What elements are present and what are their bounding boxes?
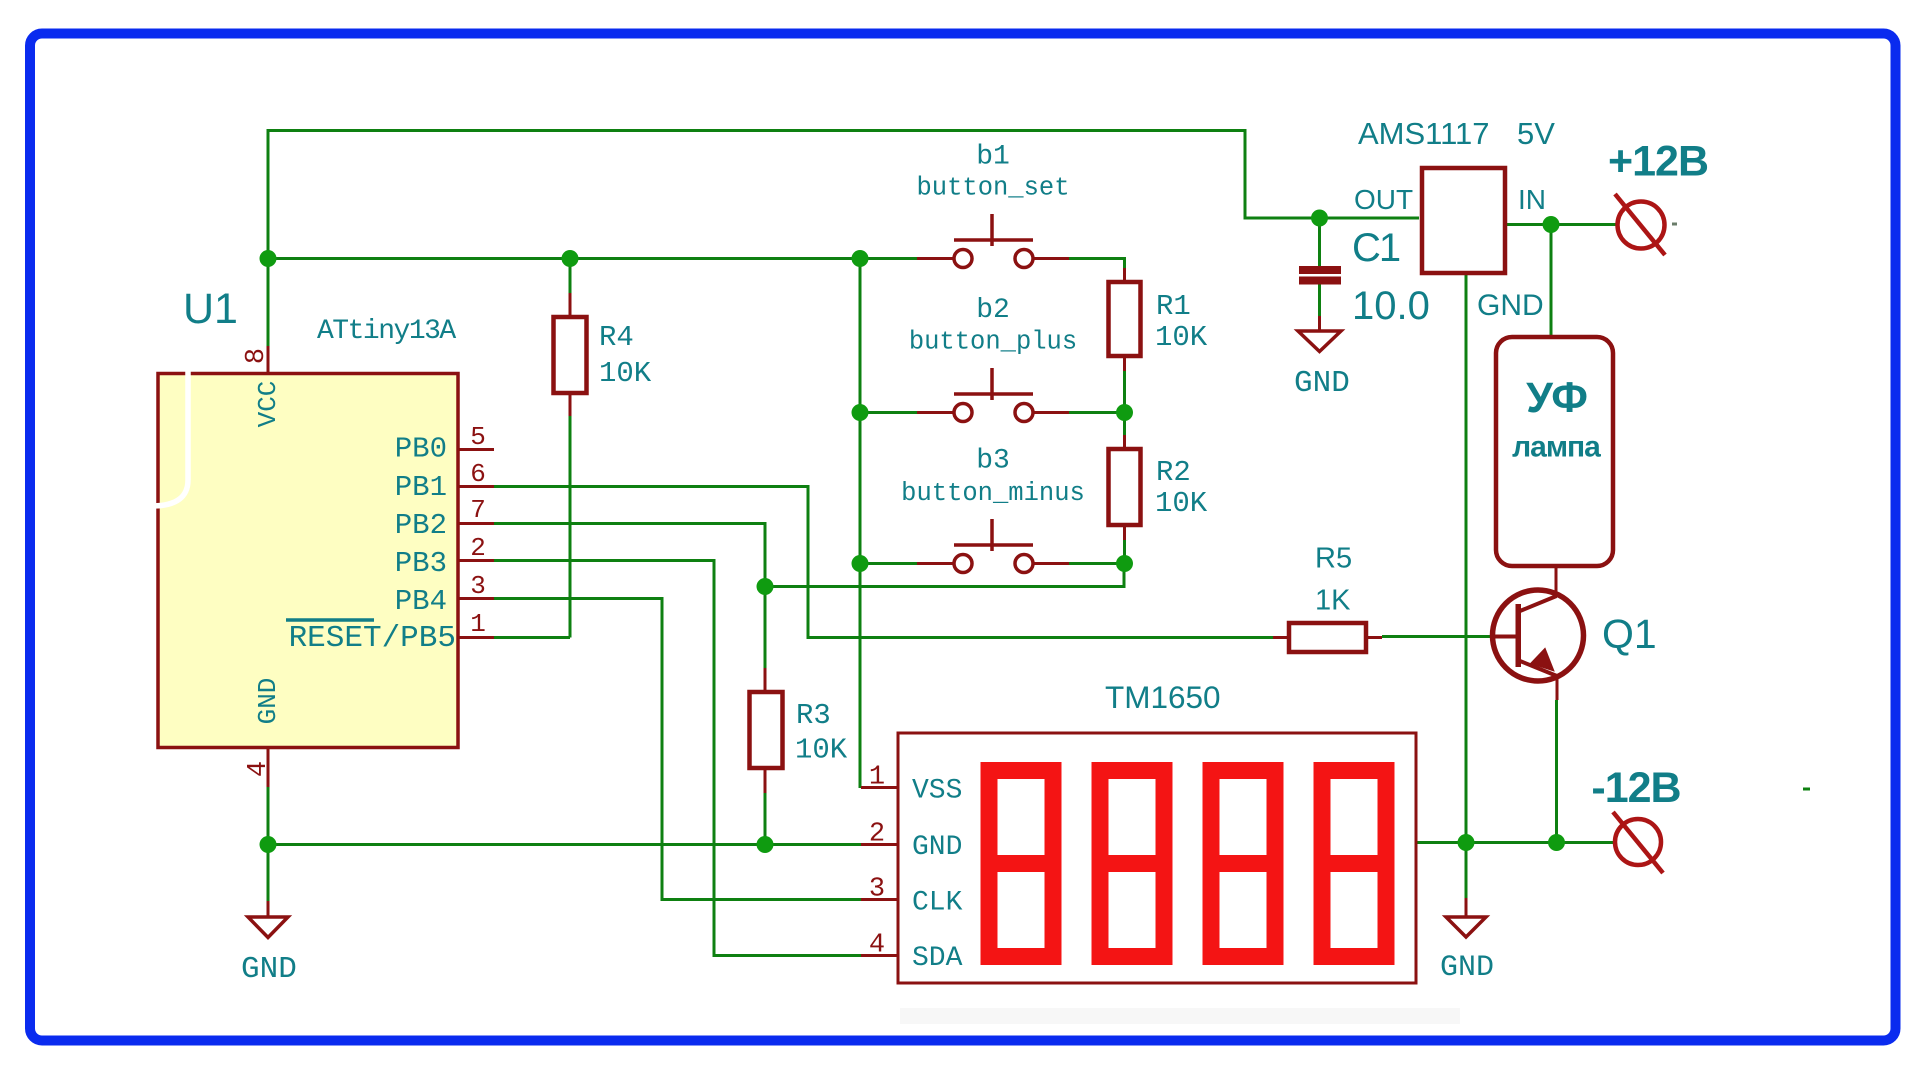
wire stub right of -12B	[1803, 788, 1810, 791]
ground symbol under C1	[1298, 331, 1341, 352]
svg-text:R4: R4	[599, 321, 634, 354]
R4 pin stubs	[569, 293, 572, 416]
ground symbol near -12B	[1446, 917, 1486, 937]
wire display GND right	[1416, 841, 1616, 844]
svg-text:VSS: VSS	[912, 776, 962, 807]
-12B GND lead	[1465, 898, 1468, 918]
Q1 emitter lead	[1556, 675, 1559, 700]
svg-text:PB0: PB0	[395, 433, 447, 466]
svg-text:PB4: PB4	[395, 585, 447, 618]
wire VCC to buttons rail	[859, 259, 862, 789]
svg-text:6: 6	[470, 459, 486, 489]
capacitor C1 plates	[1299, 266, 1341, 285]
svg-text:4: 4	[869, 931, 885, 961]
C1 bottom lead	[1318, 316, 1321, 331]
svg-text:5: 5	[470, 422, 486, 452]
regulator AMS1117 box	[1422, 168, 1505, 273]
port +12B	[1615, 194, 1665, 255]
wire R4 top	[569, 259, 572, 294]
wire PB2	[494, 524, 765, 669]
wire AMS1117 GND down	[1465, 274, 1468, 898]
pin 8 VCC stub	[267, 346, 270, 374]
R2 pin stubs	[1123, 435, 1126, 540]
b3 pin stubs	[917, 562, 1069, 565]
svg-text:Q1: Q1	[1602, 611, 1657, 657]
svg-text:7: 7	[470, 495, 486, 525]
button b1	[954, 214, 1033, 268]
svg-text:10K: 10K	[795, 734, 848, 767]
wire VCC rail	[268, 257, 917, 260]
wire VCC top bus	[268, 131, 1419, 347]
svg-text:10K: 10K	[1155, 487, 1208, 520]
svg-text:GND: GND	[1294, 366, 1350, 401]
svg-text:3: 3	[470, 571, 486, 601]
wire b1 right to R1	[1069, 259, 1125, 269]
resistor R2	[1109, 449, 1141, 525]
svg-text:SDA: SDA	[912, 943, 963, 974]
svg-text:GND: GND	[1440, 951, 1494, 985]
svg-text:b3: b3	[976, 446, 1010, 477]
wire C1 below	[1318, 281, 1321, 316]
svg-text:1K: 1K	[1315, 585, 1351, 617]
svg-text:OUT: OUT	[1354, 184, 1413, 215]
wire R3 bottom	[764, 793, 767, 845]
svg-text:button_plus: button_plus	[909, 328, 1077, 357]
svg-text:5V: 5V	[1517, 116, 1555, 151]
svg-text:10.0: 10.0	[1352, 284, 1430, 328]
wire b3 right	[1069, 562, 1125, 565]
wire R5 to Q1 base	[1382, 635, 1491, 638]
svg-text:VCC: VCC	[253, 381, 283, 428]
lamp to Q1 collector lead	[1555, 566, 1558, 597]
svg-text:УФ: УФ	[1526, 374, 1588, 422]
resistor R4	[554, 317, 587, 393]
svg-text:PB2: PB2	[395, 509, 447, 542]
svg-text:CLK: CLK	[912, 888, 963, 919]
wire C1 top	[1318, 218, 1321, 266]
svg-text:IN: IN	[1518, 184, 1546, 215]
svg-text:+12B: +12B	[1608, 138, 1708, 186]
svg-text:PB1: PB1	[395, 471, 447, 504]
wire PB4 to CLK	[494, 599, 861, 900]
svg-text:ATtiny13A: ATtiny13A	[317, 316, 456, 347]
tick right of +12B	[1672, 223, 1677, 226]
pin 5 stub	[457, 448, 494, 451]
faint band under display	[900, 1008, 1460, 1024]
svg-text:PB3: PB3	[395, 547, 447, 580]
display digits	[989, 771, 1386, 957]
svg-text:U1: U1	[183, 285, 238, 333]
svg-text:RESET/PB5: RESET/PB5	[289, 621, 456, 656]
wire RESET/PB5	[494, 636, 570, 639]
button b3	[954, 519, 1033, 573]
svg-text:GND: GND	[253, 678, 283, 725]
svg-text:8: 8	[242, 348, 272, 364]
svg-text:button_set: button_set	[916, 174, 1069, 203]
wire R1 bottom	[1123, 371, 1126, 413]
svg-text:-12B: -12B	[1591, 764, 1680, 812]
svg-text:1: 1	[869, 763, 885, 793]
wire Q1 emitter down	[1555, 700, 1558, 843]
TM1650 pin stubs	[861, 788, 898, 956]
svg-text:C1: C1	[1352, 226, 1400, 270]
R1 pin stubs	[1123, 268, 1126, 371]
svg-text:3: 3	[869, 875, 885, 905]
pin 6 stub	[457, 485, 494, 488]
svg-text:b2: b2	[976, 295, 1010, 326]
pin 2 stub	[457, 559, 494, 562]
transistor Q1	[1490, 590, 1584, 681]
button b2	[954, 368, 1033, 422]
R3 pin stubs	[764, 668, 767, 793]
svg-text:лампа: лампа	[1512, 431, 1601, 464]
pin 7 stub	[457, 522, 494, 525]
svg-text:4: 4	[244, 761, 274, 777]
svg-text:b1: b1	[976, 142, 1010, 173]
svg-text:R3: R3	[796, 699, 831, 732]
wire b3 left	[860, 562, 917, 565]
pin 3 stub	[457, 597, 494, 600]
UV lamp box	[1496, 337, 1613, 566]
b2 pin stubs	[917, 411, 1069, 414]
svg-text:R5: R5	[1315, 543, 1352, 575]
svg-text:2: 2	[869, 820, 885, 850]
wire IC GND down	[267, 787, 270, 901]
wire PB3 to SDA	[494, 561, 861, 956]
port -12B	[1613, 812, 1663, 873]
svg-text:R1: R1	[1156, 290, 1191, 323]
resistor R5	[1289, 623, 1366, 652]
wire R4 bottom to RESET	[569, 416, 572, 638]
wire R2 top	[1123, 413, 1126, 436]
wire b2 left	[860, 411, 917, 414]
resistor R3	[750, 692, 783, 768]
pin 4 GND stub	[267, 747, 270, 787]
wire GND bus	[268, 843, 861, 846]
wire b2 right	[1069, 411, 1125, 414]
svg-text:10K: 10K	[599, 357, 652, 390]
RESET overline	[286, 618, 374, 622]
svg-text:2: 2	[470, 533, 486, 563]
svg-text:TM1650: TM1650	[1105, 679, 1221, 715]
IC U1 body	[158, 374, 458, 748]
svg-text:GND: GND	[241, 952, 297, 987]
svg-text:GND: GND	[1477, 289, 1544, 322]
wire PB1 to R5	[494, 487, 1273, 638]
U1 GND lead lower	[267, 901, 270, 917]
svg-text:R2: R2	[1156, 456, 1191, 489]
resistor R1	[1109, 282, 1141, 356]
white artifact on U1 left edge	[153, 366, 188, 506]
b1 pin stubs	[917, 257, 1069, 260]
svg-text:GND: GND	[912, 832, 962, 863]
svg-text:10K: 10K	[1155, 321, 1208, 354]
ground symbol under U1	[248, 917, 288, 938]
display TM1650 box	[898, 733, 1416, 983]
R5 pin stubs	[1273, 636, 1382, 639]
svg-text:AMS1117: AMS1117	[1358, 116, 1490, 151]
wire R2 bottom	[1123, 540, 1126, 564]
wire IN junction to lamp	[1550, 225, 1553, 339]
wire IN to +12V port	[1505, 223, 1616, 226]
svg-text:button_minus: button_minus	[901, 479, 1085, 508]
pin 1 stub	[457, 636, 494, 639]
wire ladder bottom	[765, 564, 1124, 587]
svg-text:1: 1	[470, 609, 486, 639]
